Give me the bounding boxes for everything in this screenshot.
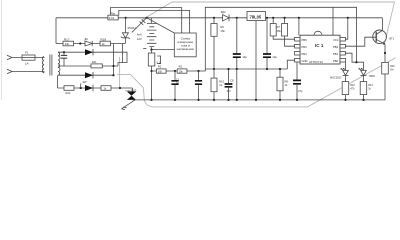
wire: PB0 to opto1 bbox=[345, 62, 347, 70]
diode VD7 bbox=[85, 85, 93, 91]
minus mark bbox=[143, 47, 146, 49]
svg-text:ATTINY13: ATTINY13 bbox=[309, 60, 323, 64]
wire: vertical x113.5 bbox=[113, 44, 115, 76]
transformer T1 bbox=[42, 52, 60, 75]
node I bbox=[174, 70, 176, 72]
svg-text:78L05: 78L05 bbox=[250, 15, 262, 20]
capacitor C7 bbox=[233, 18, 241, 69]
svg-text:70М4: 70М4 bbox=[369, 75, 376, 78]
resistor R20 bbox=[64, 86, 74, 91]
wire: GND pin to mid rail bbox=[287, 60, 294, 69]
resistor R21 bbox=[91, 64, 102, 68]
switch SA1 bbox=[132, 18, 147, 33]
resistor R7 bbox=[270, 18, 294, 39]
svg-text:R13: R13 bbox=[368, 84, 373, 87]
node S bbox=[272, 17, 274, 19]
svg-text:1A: 1A bbox=[25, 62, 29, 66]
node U bbox=[298, 17, 300, 19]
svg-text:0.01: 0.01 bbox=[109, 16, 115, 20]
svg-text:R2: R2 bbox=[179, 64, 183, 68]
node B bbox=[146, 17, 148, 19]
svg-text:F1: F1 bbox=[25, 51, 29, 55]
wire: mid signal rail bbox=[205, 68, 287, 70]
fuse F1 bbox=[22, 55, 35, 60]
node H bbox=[150, 70, 152, 72]
wire: left drop to rectifier branch bbox=[55, 18, 57, 44]
node J bbox=[197, 70, 199, 72]
triac VS1 bbox=[122, 88, 137, 110]
svg-text:Rш: Rш bbox=[111, 12, 116, 16]
node Z bbox=[227, 68, 229, 70]
resistor R12 bbox=[342, 82, 349, 100]
wire: top rail right section bbox=[205, 7, 356, 71]
wire: regulator output down bbox=[255, 21, 257, 100]
resistor R22 bbox=[101, 86, 111, 91]
wire: PB1 to opto2 bbox=[345, 53, 363, 69]
diode VD3 bbox=[85, 72, 93, 78]
node C bbox=[79, 42, 81, 44]
node A bbox=[125, 17, 127, 19]
opto U3 LED bbox=[359, 68, 367, 82]
resistor R16 bbox=[382, 62, 389, 100]
capacitor C1 bbox=[171, 71, 178, 100]
capacitor C6 bbox=[225, 69, 233, 100]
svg-text:МОС3023: МОС3023 bbox=[330, 77, 342, 80]
wire: battery plus to module bbox=[147, 18, 175, 33]
wire: secondary bottom tap bbox=[58, 74, 114, 76]
svg-text:1M: 1M bbox=[390, 68, 393, 71]
wire: ground rail bbox=[133, 99, 386, 101]
diode VD1 bbox=[85, 41, 92, 46]
wire: input line 1 bbox=[12, 56, 44, 59]
module text bbox=[177, 37, 195, 51]
resistor R5 bbox=[211, 18, 217, 69]
wire: top rail 3 bbox=[119, 10, 190, 33]
regulator DA1 78L05 bbox=[247, 12, 266, 21]
wire: grey sense line bottom run bbox=[117, 58, 396, 107]
wire: C7 column to ground bbox=[236, 69, 238, 100]
node T bbox=[284, 17, 286, 19]
capacitor C9 bbox=[293, 62, 301, 100]
zener VD6 bbox=[121, 33, 130, 39]
wire: secondary mid tap bbox=[58, 65, 118, 67]
node D bbox=[112, 65, 114, 67]
wire: stub bbox=[80, 83, 82, 88]
wire: battery minus to module bbox=[151, 49, 174, 51]
battery GB1 bbox=[147, 18, 157, 50]
wire: drop to IC top left bbox=[298, 18, 300, 35]
svg-text:R16: R16 bbox=[390, 65, 395, 68]
svg-text:BT1: BT1 bbox=[390, 37, 395, 40]
wire: vertical x122.5 bbox=[122, 44, 124, 63]
svg-text:470: 470 bbox=[350, 88, 355, 91]
wire: secondary top tap bbox=[58, 52, 127, 66]
svg-text:IC 1: IC 1 bbox=[315, 43, 324, 48]
node M bbox=[213, 17, 215, 19]
capacitor C5 bbox=[61, 52, 67, 66]
page edge line bbox=[1, 0, 3, 100]
diode VD2 bbox=[85, 49, 93, 55]
wire: grey sense line bottom bbox=[119, 57, 121, 89]
svg-text:Акб: Акб bbox=[137, 32, 142, 36]
resistor R8 bbox=[277, 69, 283, 100]
svg-text:R12: R12 bbox=[350, 84, 355, 87]
node Q bbox=[236, 68, 238, 70]
svg-text:PGM-1: PGM-1 bbox=[128, 26, 137, 30]
node V bbox=[279, 68, 281, 70]
node W bbox=[347, 17, 349, 19]
svg-text:напряжения: напряжения bbox=[177, 47, 195, 51]
wire: VCC feed bbox=[345, 18, 347, 39]
wire: drop to IC top mid bbox=[332, 7, 334, 35]
resistor R9 bbox=[282, 18, 295, 46]
wire: PB2 to transistor base bbox=[345, 37, 376, 46]
node L bbox=[119, 87, 121, 89]
node R bbox=[266, 68, 268, 70]
connector X2 bbox=[7, 69, 12, 74]
transistor VT1 bbox=[373, 18, 387, 63]
wire: main +12V rail bbox=[56, 17, 382, 19]
resistor R10 bbox=[211, 69, 217, 100]
capacitor C8 bbox=[263, 18, 271, 69]
ground rail nodes bbox=[150, 99, 364, 101]
diode VD4 bbox=[223, 14, 229, 21]
wire: top rail 2 bbox=[110, 8, 181, 33]
zener VD6 column bbox=[124, 18, 126, 44]
wire: gate chain bbox=[58, 87, 133, 89]
resistor R17 bbox=[56, 41, 125, 46]
shunt resistor Rsh bbox=[108, 15, 118, 20]
resistor R13 bbox=[360, 82, 367, 100]
svg-text:R18: R18 bbox=[101, 37, 107, 41]
resistor R18 bbox=[100, 41, 111, 46]
svg-text:12V: 12V bbox=[137, 37, 142, 41]
node K bbox=[80, 87, 82, 89]
node G bbox=[150, 49, 152, 51]
svg-text:R17: R17 bbox=[64, 37, 70, 41]
IC U1 ATtiny13 bbox=[295, 31, 346, 64]
resistor R1 bbox=[156, 69, 166, 73]
shunt R19 bbox=[148, 50, 160, 100]
node F bbox=[63, 51, 65, 53]
wire: sense chain bbox=[152, 70, 206, 72]
node X bbox=[355, 61, 357, 63]
connector X1 bbox=[7, 55, 12, 60]
wire: input line 2 bbox=[12, 72, 44, 73]
node P bbox=[213, 68, 215, 70]
node N bbox=[236, 17, 238, 19]
node E bbox=[112, 74, 114, 76]
wire: grey sense line top bbox=[141, 2, 394, 38]
capacitor C2 bbox=[195, 71, 202, 100]
node O bbox=[266, 17, 268, 19]
svg-text:R1: R1 bbox=[158, 64, 162, 68]
node Y bbox=[384, 52, 386, 54]
opto U2 LED bbox=[341, 68, 349, 82]
wire: bottom branch feed bbox=[57, 75, 59, 88]
measurement module A1 bbox=[174, 33, 196, 57]
resistor R2 bbox=[177, 69, 187, 73]
